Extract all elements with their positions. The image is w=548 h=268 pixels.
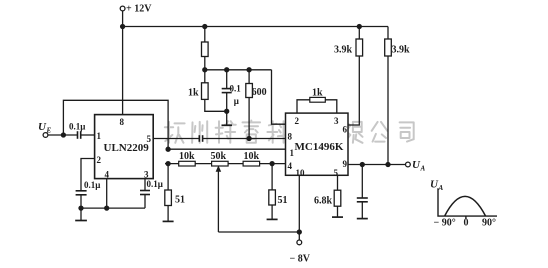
svg-text:5: 5 [147, 134, 152, 144]
node UE junction [61, 133, 65, 137]
wire ULN pin4 [106, 179, 108, 209]
resistor R1 (unlabeled, top) [204, 27, 206, 43]
potentiometer R5 50k [212, 161, 229, 166]
wire carrier chain line [165, 163, 286, 165]
node mid-bus junctions [203, 68, 207, 72]
svg-text:0.1μ: 0.1μ [69, 122, 85, 132]
ground (C4 node) [80, 208, 82, 220]
svg-text:E: E [46, 127, 52, 135]
svg-text:4: 4 [105, 170, 110, 180]
svg-text:1k: 1k [188, 87, 199, 98]
svg-text:A: A [420, 165, 426, 173]
capacitor C1 0.1u [226, 70, 228, 89]
capacitor C4 0.1u (ULN pin2) [81, 159, 95, 191]
node ground-line junctions [79, 206, 83, 210]
terminal -8V [297, 240, 302, 245]
node top bus junctions [121, 25, 125, 29]
svg-text:− 8V: − 8V [290, 254, 311, 265]
svg-text:MC1496K: MC1496K [295, 141, 344, 153]
resistor R9 1k (bridge pins 2-3) [297, 100, 310, 113]
watermark 杭州将睿科技有限公司 [165, 121, 414, 143]
node wiper/-8V junction [297, 230, 301, 234]
resistor R4 10k [179, 161, 196, 166]
svg-text:0.1μ: 0.1μ [147, 179, 163, 189]
op-amp U1 ULN2209 [95, 115, 154, 179]
capacitor C5 0.1u (ULN pin3) [144, 179, 146, 191]
ground (R7) [163, 220, 174, 222]
svg-text:10: 10 [296, 168, 306, 178]
wire +12V top bus [123, 26, 388, 28]
node chain junctions [166, 162, 170, 166]
svg-text:0.1μ: 0.1μ [84, 180, 100, 190]
svg-text:2: 2 [97, 155, 102, 165]
op-amp U2 MC1496K [286, 113, 349, 175]
svg-text:μ: μ [234, 96, 239, 106]
wire MC pin6 to 3.9k [348, 56, 359, 125]
wire ULN ground line [81, 207, 145, 209]
wire mid bus y=69.8 [205, 69, 272, 71]
ground (R12) [332, 216, 343, 218]
wire MC pin10 to -8V [298, 175, 300, 240]
svg-text:9: 9 [343, 159, 348, 169]
graph zero tick [465, 216, 467, 219]
ground (R8) [267, 218, 278, 220]
wire UE loop over ULN2209 to MC pin1 column [63, 100, 168, 149]
svg-text:3.9k: 3.9k [392, 44, 411, 55]
svg-text:50k: 50k [211, 151, 227, 162]
svg-text:1: 1 [97, 131, 102, 141]
resistor R8 51 (right) [271, 164, 273, 190]
svg-text:51: 51 [175, 195, 185, 206]
wire +12V vertical to ULN pin 8 [122, 11, 124, 115]
terminal +12V [120, 6, 125, 11]
graph sine hump [445, 196, 486, 216]
svg-text:2: 2 [295, 116, 300, 126]
node output junctions [360, 163, 364, 167]
svg-text:1k: 1k [312, 88, 323, 99]
capacitor C6 (output filter) [361, 165, 363, 199]
svg-text:10k: 10k [179, 151, 195, 162]
svg-text:6.8k: 6.8k [314, 196, 333, 207]
resistor R6 10k [243, 161, 260, 166]
svg-text:1: 1 [290, 148, 295, 158]
svg-text:90°: 90° [482, 218, 496, 229]
svg-text:5: 5 [334, 168, 339, 178]
resistor R12 6.8k [337, 175, 339, 190]
svg-text:8: 8 [288, 132, 293, 142]
wire ULN pin5 to MC pin8 [153, 138, 199, 140]
wire bus corner down to right 3.9k [387, 27, 389, 40]
wire UE input [48, 134, 77, 136]
ground (C6) [357, 218, 368, 220]
capacitor C3 (series, ULN out) [198, 135, 200, 142]
resistor R2 1k [204, 70, 206, 83]
svg-text:+ 12V: + 12V [126, 4, 152, 15]
node 600/pin8 junction [247, 137, 251, 141]
svg-text:6: 6 [343, 125, 348, 135]
svg-text:3: 3 [144, 170, 149, 180]
svg-text:600: 600 [252, 87, 267, 98]
terminal UA [406, 162, 411, 167]
svg-text:ULN2209: ULN2209 [104, 142, 150, 154]
wire bias corner to MC1496K upper-left pin [272, 70, 286, 124]
svg-text:10k: 10k [244, 151, 260, 162]
resistor R10 3.9k (left) [356, 39, 363, 56]
wire MC pin9 output line [348, 164, 406, 166]
svg-text:0.1: 0.1 [230, 83, 242, 93]
node 1k/C1 bottom junction [225, 109, 229, 113]
resistor R11 3.9k (right) [385, 39, 392, 56]
graph axes [438, 188, 497, 219]
wire MC pin1 line [168, 148, 285, 150]
svg-text:A: A [438, 184, 444, 192]
svg-text:4: 4 [288, 161, 293, 171]
svg-text:0: 0 [464, 218, 469, 229]
svg-text:3: 3 [334, 116, 339, 126]
resistor R3 600 [248, 70, 250, 84]
wiper arrow of R5 [217, 170, 219, 233]
svg-text:51: 51 [278, 195, 288, 206]
node pin1 junction [166, 147, 170, 151]
svg-text:− 90°: − 90° [434, 218, 456, 229]
ground (C1) [222, 124, 233, 126]
terminal UE [43, 133, 48, 138]
capacitor C2 0.1u (series input) [77, 131, 79, 139]
svg-text:3.9k: 3.9k [334, 44, 353, 55]
resistor R7 51 (left) [167, 164, 169, 190]
wire wiper to -8V node [218, 231, 298, 233]
svg-text:8: 8 [120, 117, 125, 127]
